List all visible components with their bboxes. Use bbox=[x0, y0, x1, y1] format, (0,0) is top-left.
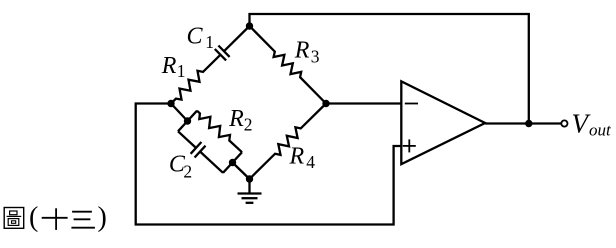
svg-text:R: R bbox=[289, 144, 305, 170]
svg-text:1: 1 bbox=[177, 61, 186, 81]
svg-text:1: 1 bbox=[205, 32, 214, 52]
svg-text:3: 3 bbox=[311, 47, 320, 67]
svg-text:R: R bbox=[228, 106, 244, 132]
svg-text:2: 2 bbox=[244, 114, 253, 134]
svg-text:2: 2 bbox=[183, 162, 192, 182]
svg-text:R: R bbox=[161, 53, 177, 79]
svg-text:C: C bbox=[187, 24, 204, 50]
svg-text:(: ( bbox=[29, 202, 38, 233]
svg-text:out: out bbox=[589, 121, 612, 140]
svg-text:): ) bbox=[98, 202, 107, 233]
svg-text:R: R bbox=[294, 37, 310, 63]
svg-text:4: 4 bbox=[306, 152, 315, 172]
